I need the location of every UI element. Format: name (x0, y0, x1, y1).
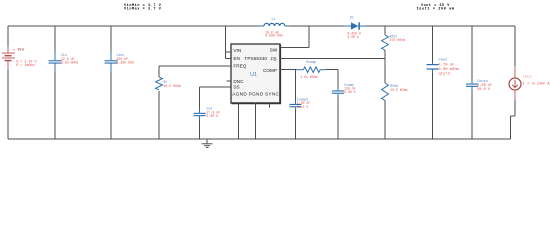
capacitor Cout (427, 26, 460, 139)
svg-text:-: - (12, 61, 15, 65)
svg-text:U1: U1 (250, 72, 257, 78)
resistor Rcomp (296, 60, 326, 79)
svg-text:Iout: Iout (523, 76, 532, 80)
wire left vertical (7, 26, 9, 139)
capacitor Ccomp (332, 83, 356, 97)
capacitor Cin (49, 26, 79, 139)
svg-text:EN: EN (233, 56, 240, 61)
wire SS net (200, 87, 232, 139)
svg-text:50.0 V: 50.0 V (477, 88, 491, 92)
resistor Rt (156, 77, 181, 90)
svg-text:R = 1mOhm: R = 1mOhm (16, 63, 34, 68)
svg-text:FB: FB (271, 56, 277, 61)
wire right edge (511, 26, 516, 139)
svg-text:0.280 Ohm: 0.280 Ohm (117, 61, 134, 65)
svg-text:AGND PGND SYNC: AGND PGND SYNC (232, 91, 279, 96)
svg-text:Cout: Cout (438, 59, 447, 63)
svg-text:Iout1 = 200 mA: Iout1 = 200 mA (417, 7, 455, 11)
svg-text:SW: SW (270, 48, 278, 53)
svg-text:VIN: VIN (233, 48, 241, 53)
battery Vin (2, 47, 38, 67)
svg-text:COMP: COMP (263, 68, 277, 73)
svg-text:D1: D1 (350, 15, 354, 19)
svg-text:DNC: DNC (233, 79, 244, 84)
capacitor Coutx (466, 26, 492, 139)
svg-text:I = 0.200 A: I = 0.200 A (522, 83, 550, 87)
svg-text:VinMax = 3.7 V: VinMax = 3.7 V (124, 6, 162, 11)
wire DNC stub (227, 80, 232, 82)
svg-text:4.70 uF: 4.70 uF (438, 64, 455, 68)
wire COMP net (280, 70, 296, 139)
wire top rail (8, 25, 515, 27)
wire VIN/EN net (226, 26, 232, 59)
svg-text:0.038 Ohm: 0.038 Ohm (265, 34, 282, 38)
capacitor Cinx (105, 26, 134, 139)
wire AGND (238, 103, 240, 139)
IC U1 TPS55340 (231, 44, 281, 104)
svg-text:4.00 V: 4.00 V (207, 114, 219, 118)
svg-text:3.63 mOhm: 3.63 mOhm (61, 61, 78, 65)
svg-text:TPS55340: TPS55340 (244, 56, 267, 61)
resistor Rfbb (382, 58, 408, 139)
svg-text:Rcomp: Rcomp (306, 60, 316, 64)
svg-text:qty=3: qty=3 (438, 72, 450, 76)
svg-text:10.0 KOhm: 10.0 KOhm (390, 88, 407, 92)
svg-text:+: + (13, 49, 16, 54)
svg-text:3.01 KOhm: 3.01 KOhm (300, 75, 317, 79)
wire FREQ net (159, 66, 231, 139)
top annotation Vout/Iout1 (417, 4, 455, 11)
svg-text:FREQ: FREQ (233, 64, 246, 69)
wire PGND (254, 103, 256, 139)
svg-text:50.0 V: 50.0 V (297, 105, 309, 109)
resistor Rfbt (382, 26, 405, 58)
svg-text:SS: SS (233, 85, 239, 90)
svg-text:276 KOhm: 276 KOhm (390, 38, 405, 42)
capacitor Ccomp2 (289, 98, 310, 111)
wire bottom rail (8, 138, 511, 140)
current source Iout (509, 66, 550, 100)
diode D1 (343, 15, 366, 38)
svg-text:84.5 KOhm: 84.5 KOhm (164, 84, 181, 88)
svg-text:Vin: Vin (18, 47, 24, 52)
wire Rcomp to Ccomp (326, 70, 338, 139)
wire SYNC stub (269, 103, 271, 108)
capacitor Css (194, 106, 220, 120)
wire SW net (280, 26, 309, 48)
ground (202, 139, 213, 148)
svg-text:L1: L1 (272, 17, 276, 21)
wire FB net (280, 57, 385, 59)
svg-text:6.30 V: 6.30 V (344, 90, 356, 94)
svg-text:3.00 A: 3.00 A (347, 35, 359, 39)
inductor L1 (258, 17, 290, 38)
top annotation VinMin/VinMax (124, 3, 162, 11)
